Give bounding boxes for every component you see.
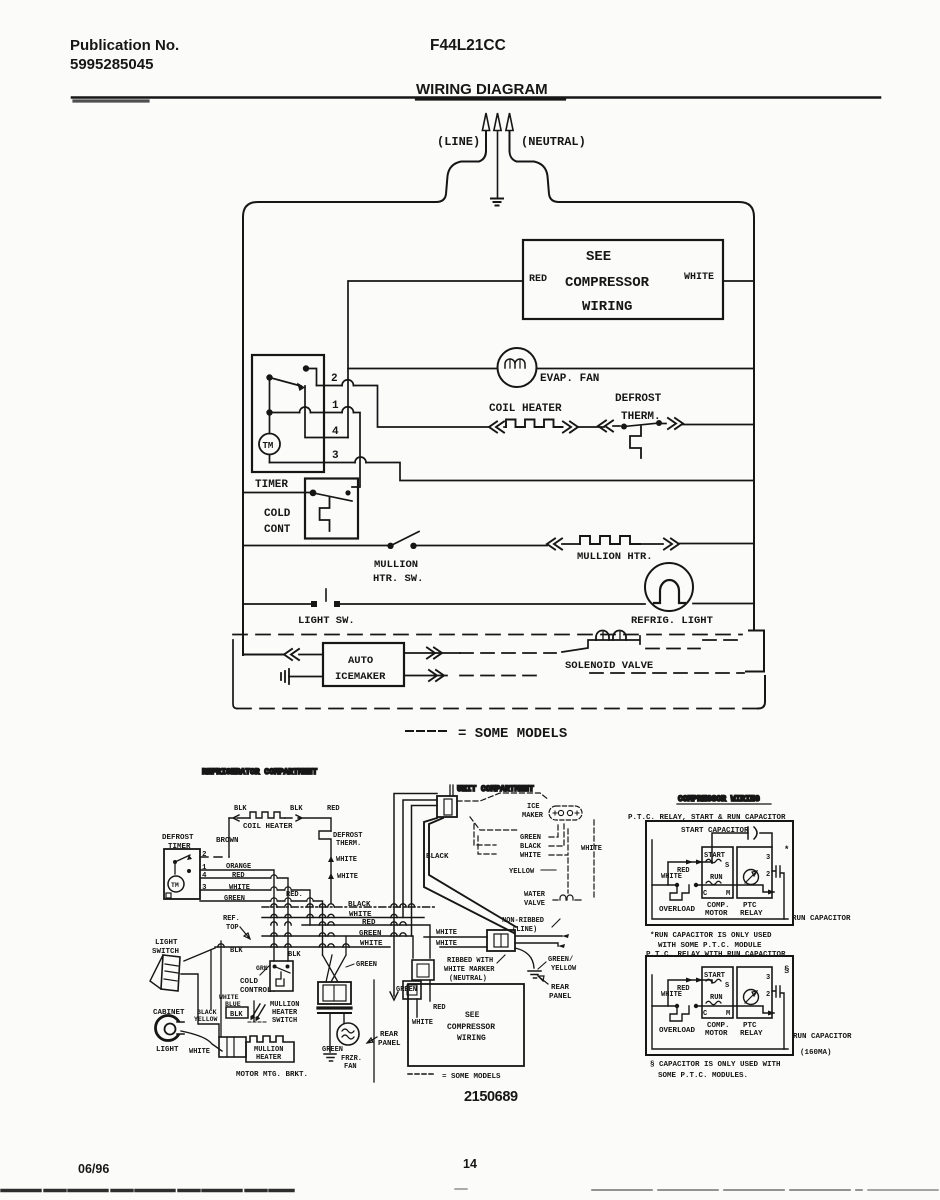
svg-text:COMPRESSOR: COMPRESSOR: [447, 1023, 495, 1032]
svg-text:PTC: PTC: [743, 1022, 757, 1030]
svg-text:LIGHT: LIGHT: [156, 1046, 179, 1054]
svg-text:AUTO: AUTO: [348, 655, 373, 667]
wire white feed to bus: [403, 800, 437, 918]
defrost thermostat S7 (lower): [319, 831, 331, 903]
run capacitor element: [772, 866, 784, 919]
svg-text:*RUN CAPACITOR IS ONLY USED: *RUN CAPACITOR IS ONLY USED: [650, 932, 772, 940]
node NEUTRAL terminal arrow: [506, 113, 513, 151]
label DEFROST THERM (lower): [333, 832, 362, 848]
svg-text:MOTOR MTG. BRKT.: MOTOR MTG. BRKT.: [236, 1071, 308, 1079]
cold control contacts: [310, 490, 352, 532]
label REAR PANEL (service): [549, 984, 572, 1001]
wire: evap fan line to right rail: [348, 368, 754, 370]
svg-text:THERM.: THERM.: [336, 840, 361, 848]
svg-text:BLACK: BLACK: [520, 843, 542, 851]
svg-text:WHITE: WHITE: [229, 884, 250, 892]
svg-text:14: 14: [463, 1157, 477, 1171]
light switch S2: [243, 589, 645, 607]
wires into SEE box: [417, 980, 430, 1017]
hop: line2 over red rail: [342, 380, 354, 386]
svg-text:FRZR.: FRZR.: [341, 1055, 362, 1063]
label PTC RELAY: [740, 1022, 763, 1038]
wire red feed to bus: [412, 806, 438, 937]
svg-text:COIL HEATER: COIL HEATER: [489, 403, 562, 415]
svg-text:S: S: [725, 982, 729, 990]
wire terminal2 brown riser: [200, 856, 229, 858]
svg-text:REAR: REAR: [551, 984, 570, 992]
bottom border left: [2, 1189, 293, 1192]
svg-text:RUN: RUN: [710, 874, 723, 882]
svg-text:BLK: BLK: [290, 805, 303, 813]
unit compartment connector J1: [437, 785, 457, 817]
label WHITE / BLUE: [219, 994, 241, 1008]
svg-text:PANEL: PANEL: [549, 993, 572, 1001]
svg-text:ICEMAKER: ICEMAKER: [335, 671, 386, 683]
legend dashes = SOME MODELS: [406, 730, 449, 732]
wire cabinet light leads: [181, 1031, 222, 1051]
svg-text:06/96: 06/96: [78, 1162, 109, 1176]
label COLD CONT: [264, 508, 291, 536]
svg-text:BLK: BLK: [288, 951, 301, 959]
svg-text:SWITCH: SWITCH: [272, 1017, 297, 1025]
svg-text:C: C: [703, 1010, 707, 1018]
solenoid valve L1: [562, 631, 640, 653]
svg-text:DEFROST: DEFROST: [162, 834, 194, 842]
timer contact node 1: [266, 409, 272, 415]
svg-text:COMP.: COMP.: [707, 902, 730, 910]
connector arrow >> (icemaker out line): [427, 648, 442, 659]
timer motor TM: [259, 434, 280, 455]
svg-text:EVAP. FAN: EVAP. FAN: [540, 373, 599, 385]
svg-text:(160MA): (160MA): [800, 1049, 832, 1057]
svg-text:REFRIGERATOR COMPARTMENT: REFRIGERATOR COMPARTMENT: [202, 768, 317, 777]
wire white arrows on defrost drop: [328, 856, 334, 879]
svg-text:BROWN: BROWN: [216, 837, 239, 845]
svg-text:WHITE: WHITE: [336, 856, 357, 864]
bus RED: [302, 925, 430, 958]
node ground-neutral terminal arrow: [494, 113, 501, 197]
svg-text:MULLION: MULLION: [270, 1001, 299, 1009]
svg-text:WHITE: WHITE: [684, 272, 714, 283]
svg-text:THERM.: THERM.: [621, 411, 661, 423]
wire dashed: solenoid to right bracket: [646, 640, 745, 649]
icemaker (lower) symbol: [549, 806, 582, 820]
coil heater R1: [489, 420, 604, 433]
red lead: [668, 862, 698, 885]
svg-text:= SOME MODELS: = SOME MODELS: [442, 1073, 501, 1081]
svg-text:HEATER: HEATER: [272, 1009, 298, 1017]
some-models enclosure right corner brackets: [746, 631, 765, 709]
freezer fan connector block: [318, 982, 351, 1004]
connector BLK block: [226, 1007, 248, 1018]
svg-text:(NEUTRAL): (NEUTRAL): [521, 135, 586, 149]
some-models dashed enclosure: [233, 635, 760, 709]
note capacitor only used: [650, 1061, 781, 1080]
wire: terminal 2 line to coil heater: [317, 386, 491, 428]
ground symbol (freezer fan): [324, 1054, 336, 1061]
svg-text:GREEN: GREEN: [520, 834, 541, 842]
freezer fan connector X-wires: [323, 936, 347, 982]
svg-text:RED: RED: [433, 1004, 446, 1012]
connector arrow << (coil heater in): [489, 422, 504, 433]
hop: line1 over wiper wire: [300, 407, 311, 413]
cold control S5 (lower) box: [270, 961, 293, 991]
svg-text:3: 3: [766, 854, 770, 862]
timer contact node 2: [303, 365, 309, 371]
svg-text:GREEN/: GREEN/: [548, 956, 573, 964]
wire green from timer: [200, 901, 323, 955]
white lead with overload: [652, 1005, 677, 1007]
start capacitor loop: [712, 833, 772, 863]
wire terminal1 orange: [200, 870, 274, 961]
svg-text:Publication No.: Publication No.: [70, 37, 179, 54]
label ICE MAKER: [522, 803, 544, 820]
svg-text:REAR: REAR: [380, 1031, 399, 1039]
label FRZR. FAN: [341, 1055, 362, 1071]
svg-text:LIGHT SW.: LIGHT SW.: [298, 615, 355, 627]
svg-text:(NEUTRAL): (NEUTRAL): [449, 975, 487, 983]
svg-text:RUN CAPACITOR: RUN CAPACITOR: [792, 915, 851, 923]
evap fan motor B1: [498, 348, 537, 387]
label MULLION HEATER SWITCH: [270, 1001, 299, 1025]
svg-text:YELLOW: YELLOW: [194, 1016, 218, 1023]
node LINE terminal arrow: [482, 113, 489, 151]
timer motor TM2: [168, 876, 184, 892]
note run capacitor: [646, 932, 786, 959]
svg-text:BLACK: BLACK: [197, 1009, 217, 1016]
svg-text:S: S: [725, 862, 729, 870]
connector arrow >> (coil heater out): [563, 422, 578, 433]
wire risers to mullion connector: [211, 941, 254, 1036]
svg-text:TOP: TOP: [226, 924, 239, 932]
svg-text:2: 2: [331, 373, 338, 385]
header rule: [72, 96, 880, 99]
label REF. TOP with arrow: [223, 915, 240, 932]
svg-text:4: 4: [202, 872, 207, 880]
svg-text:*: *: [784, 845, 789, 855]
compressor feed connectors: [403, 960, 434, 999]
timer wiper arm: [266, 374, 305, 391]
label COMP. MOTOR: [705, 1022, 730, 1038]
wire: white from compressor box to right rail: [723, 280, 754, 282]
svg-text:C: C: [703, 890, 707, 898]
bus WHITE lower: [215, 946, 390, 948]
bus BLACK: [262, 906, 437, 908]
svg-text:§: §: [784, 965, 789, 975]
svg-text:1: 1: [202, 864, 207, 872]
wire terminal4 red: [200, 878, 288, 961]
red lead: [668, 980, 698, 1006]
svg-text:WHITE: WHITE: [581, 845, 602, 853]
legend some models (lower): [408, 1073, 436, 1075]
svg-text:YELLOW: YELLOW: [551, 965, 577, 973]
PTC relay box: [737, 967, 772, 1018]
svg-text:4: 4: [332, 426, 339, 438]
mullion heater connector: [219, 1037, 246, 1057]
bottom border right: [592, 1189, 862, 1191]
svg-text:WHITE: WHITE: [520, 852, 541, 860]
svg-text:F44L21CC: F44L21CC: [430, 37, 506, 54]
timer terminal labels 2 1 4 3: [202, 851, 207, 892]
svg-text:CONTROL.: CONTROL.: [240, 987, 276, 995]
dashed leads to icemaker: [457, 793, 594, 897]
svg-text:5995285045: 5995285045: [70, 56, 153, 73]
svg-text:3: 3: [332, 450, 339, 462]
svg-text:COLD: COLD: [264, 508, 291, 520]
ground symbol (service cord): [528, 971, 541, 978]
svg-text:BLACK: BLACK: [426, 853, 449, 861]
wire: terminal 1 line to cold control: [270, 413, 361, 488]
wire: main loop top edge with service entrance bumps: [243, 151, 486, 655]
lower coil heater R4 line: [229, 812, 331, 831]
svg-text:MULLION: MULLION: [254, 1046, 283, 1054]
compressor box U1: SEE COMPRESSOR WIRING: [523, 240, 723, 319]
icemaker ground plug symbol: [281, 669, 323, 684]
service cord connector J2: [487, 930, 515, 951]
comp motor M box: [702, 847, 733, 898]
svg-text:RED: RED: [327, 805, 340, 813]
svg-text:= SOME MODELS: = SOME MODELS: [458, 726, 567, 742]
wires white into J2: [424, 937, 487, 947]
wire black bundle: [424, 818, 516, 933]
svg-text:RED: RED: [529, 274, 547, 285]
service cord exit wires with arrows: [515, 936, 562, 946]
svg-text:ORANGE: ORANGE: [226, 863, 251, 871]
compressor circuit box: [646, 821, 793, 925]
svg-text:WHITE: WHITE: [412, 1019, 433, 1027]
svg-text:SOME P.T.C. MODULES.: SOME P.T.C. MODULES.: [658, 1072, 748, 1080]
svg-text:RIBBED WITH: RIBBED WITH: [447, 957, 493, 965]
hop: line1 over red rail: [342, 407, 354, 413]
wire: node2 stub to terminal 2 lead: [306, 369, 317, 386]
svg-text:NON-RIBBED: NON-RIBBED: [502, 917, 544, 925]
svg-text:WHITE MARKER: WHITE MARKER: [444, 966, 495, 974]
svg-text:BLK: BLK: [230, 1011, 243, 1019]
svg-text:HTR. SW.: HTR. SW.: [373, 573, 423, 585]
wire dashed: icemaker to solenoid valve: [460, 652, 556, 654]
svg-text:2: 2: [766, 991, 770, 999]
svg-text:HEATER: HEATER: [256, 1054, 282, 1062]
svg-text:3: 3: [766, 974, 770, 982]
svg-text:START CAPACITOR: START CAPACITOR: [681, 827, 749, 835]
SEE COMPRESSOR WIRING box (lower): [408, 984, 524, 1066]
mullion heater switch S8 slashes: [248, 1004, 266, 1022]
ground wire from J2: [515, 948, 534, 968]
svg-text:WHITE: WHITE: [349, 911, 372, 919]
svg-text:COMP.: COMP.: [707, 1022, 730, 1030]
svg-text:RELAY: RELAY: [740, 910, 763, 918]
svg-text:CONT: CONT: [264, 524, 291, 536]
svg-text:TM: TM: [263, 441, 274, 451]
svg-text:2150689: 2150689: [464, 1089, 518, 1105]
svg-text:REFRIG. LIGHT: REFRIG. LIGHT: [631, 615, 713, 627]
svg-text:RUN: RUN: [710, 994, 723, 1002]
wire: wiper to terminal 4 rail: [305, 386, 348, 438]
svg-text:OVERLOAD: OVERLOAD: [659, 906, 696, 914]
bus WHITE upper: [262, 917, 424, 919]
cold control thermostat S1 box: [305, 479, 358, 539]
cabinet light DS2: [156, 1016, 181, 1041]
svg-text:WIRING: WIRING: [457, 1034, 486, 1043]
wires connector to fan: [330, 1014, 344, 1052]
wire green feed to rear panel ground: [394, 794, 437, 997]
svg-text:WIRING DIAGRAM: WIRING DIAGRAM: [416, 81, 548, 98]
svg-text:SOLENOID VALVE: SOLENOID VALVE: [565, 660, 653, 672]
svg-text:WHITE: WHITE: [189, 1048, 210, 1056]
svg-text:COLD: COLD: [240, 978, 259, 986]
svg-text:START: START: [704, 852, 725, 860]
defrost thermostat S3: [598, 418, 754, 458]
svg-text:3: 3: [202, 884, 207, 892]
svg-text:MAKER: MAKER: [522, 812, 544, 820]
svg-text:TIMER: TIMER: [255, 479, 288, 491]
wire: TM motor to contact 1: [269, 380, 271, 463]
svg-text:COMPRESSOR WIRING: COMPRESSOR WIRING: [678, 795, 760, 804]
svg-text:WHITE: WHITE: [360, 940, 383, 948]
wire: icemaker neutral output: [404, 675, 447, 677]
svg-text:TM: TM: [171, 882, 179, 889]
svg-text:GREEN: GREEN: [359, 930, 382, 938]
svg-text:BLK: BLK: [234, 805, 247, 813]
svg-text:WHITE: WHITE: [661, 873, 682, 881]
header: publication number: [70, 37, 548, 98]
defrost timer T2 box: [164, 849, 200, 899]
svg-text:MULLION HTR.: MULLION HTR.: [577, 551, 653, 563]
svg-text:WIRING: WIRING: [582, 299, 632, 315]
label COLD CONTROL: [240, 978, 276, 995]
svg-text:ICE: ICE: [527, 803, 540, 811]
fold line: [373, 980, 375, 1082]
connector arrow << (icemaker feed): [284, 649, 299, 660]
svg-text:RED: RED: [362, 919, 376, 927]
label GREEN/YELLOW: [548, 956, 577, 973]
connector arrow >> (icemaker out neutral): [429, 670, 444, 681]
label PTC RELAY: [740, 902, 763, 918]
label NON-RIBBED (LINE): [502, 917, 544, 934]
svg-text:DEFROST: DEFROST: [333, 832, 362, 840]
svg-text:RED: RED: [232, 872, 245, 880]
svg-text:WHITE: WHITE: [436, 940, 457, 948]
icemaker A1 box: [323, 643, 404, 686]
svg-text:2: 2: [766, 871, 770, 879]
svg-text:WHITE: WHITE: [661, 991, 682, 999]
svg-text:LIGHT: LIGHT: [155, 939, 178, 947]
resistor element coil heater: [506, 420, 563, 428]
ground symbol at service cord: [491, 199, 503, 206]
terminal labels 3 2: [766, 974, 770, 999]
water valve solenoid (dashed): [553, 895, 581, 900]
label MULLION HTR. SW.: [373, 559, 423, 585]
wire: left rail to cold control: [243, 492, 312, 494]
label COMP. MOTOR: [705, 902, 730, 918]
svg-text:VALVE: VALVE: [524, 900, 545, 908]
svg-text:(LINE): (LINE): [437, 135, 480, 149]
overload protector: [670, 1006, 689, 1021]
svg-text:2: 2: [202, 851, 207, 859]
svg-text:SEE: SEE: [586, 249, 611, 265]
bus GREEN: [262, 936, 413, 958]
svg-text:FAN: FAN: [344, 1063, 357, 1071]
svg-text:RELAY: RELAY: [740, 1030, 763, 1038]
svg-text:BLK: BLK: [230, 947, 243, 955]
hop: line3 over cold-control drop: [355, 457, 366, 463]
svg-text:M: M: [726, 890, 730, 898]
comp motor M box: [702, 967, 733, 1018]
PTC relay box: [737, 847, 772, 898]
header rule smudge: [74, 99, 148, 102]
defrost timer T2 labels: [162, 834, 194, 851]
label BLACK / YELLOW: [194, 1009, 218, 1023]
svg-text:GREEN: GREEN: [224, 895, 245, 903]
label RIBBED WITH WHITE MARKER (NEUTRAL): [444, 957, 495, 983]
svg-text:PTC: PTC: [743, 902, 757, 910]
svg-text:WHITE: WHITE: [337, 873, 358, 881]
svg-text:OVERLOAD: OVERLOAD: [659, 1027, 696, 1035]
label REAR PANEL (freezer): [378, 1031, 401, 1048]
svg-text:REF.: REF.: [223, 915, 240, 923]
svg-text:§ CAPACITOR IS ONLY USED WITH: § CAPACITOR IS ONLY USED WITH: [650, 1061, 781, 1069]
wire dashed: icemaker neutral to rail: [460, 673, 744, 676]
compressor circuit box: [646, 956, 793, 1055]
svg-text:START: START: [704, 972, 725, 980]
svg-text:MOTOR: MOTOR: [705, 1030, 728, 1038]
terminal labels 3 2: [766, 854, 770, 879]
svg-text:COIL HEATER: COIL HEATER: [243, 823, 293, 831]
wire light switch to bus: [184, 948, 215, 961]
label GREEN BLACK WHITE (icemaker leads): [520, 834, 602, 860]
label WATER VALVE: [524, 891, 546, 908]
svg-text:BLACK: BLACK: [348, 901, 371, 909]
svg-text:DEFROST: DEFROST: [615, 393, 662, 405]
svg-text:WATER: WATER: [524, 891, 546, 899]
wire: left rail drop to icemaker: [243, 604, 284, 655]
svg-text:WITH SOME P.T.C. MODULE: WITH SOME P.T.C. MODULE: [658, 942, 762, 950]
mullion heater switch S4: [243, 532, 547, 550]
svg-text:SEE: SEE: [465, 1011, 480, 1020]
freezer fan motor B2: [337, 1023, 359, 1045]
svg-text:WHITE: WHITE: [436, 929, 457, 937]
svg-text:MULLION: MULLION: [374, 559, 418, 571]
wire terminal3 white: [200, 890, 310, 925]
svg-text:GREEN: GREEN: [356, 961, 377, 969]
wire: terminal 3 line from TM: [270, 463, 755, 481]
timer T2 contacts: [166, 855, 192, 898]
wire: icemaker output line: [404, 652, 460, 654]
some-models enclosure left edge: [233, 640, 237, 709]
mullion heater R2: [547, 536, 754, 550]
light switch S6 (lower): [152, 939, 179, 956]
svg-text:PANEL: PANEL: [378, 1040, 401, 1048]
refrigerator light DS1: [645, 563, 754, 611]
mullion heater R3 box: [246, 1036, 294, 1062]
svg-text:M: M: [726, 1010, 730, 1018]
svg-text:WHITE: WHITE: [219, 994, 239, 1001]
wire: red feed from timer to compressor box: [348, 281, 523, 438]
svg-text:MOTOR: MOTOR: [705, 910, 728, 918]
svg-text:1: 1: [332, 400, 339, 412]
svg-text:RUN CAPACITOR: RUN CAPACITOR: [793, 1033, 852, 1041]
defrost timer T1 box: [252, 355, 324, 472]
white lead with overload: [652, 884, 677, 886]
svg-text:COMPRESSOR: COMPRESSOR: [565, 275, 650, 291]
run capacitor element: [772, 986, 784, 1049]
svg-text:GREEN: GREEN: [322, 1046, 343, 1054]
overload protector: [670, 885, 689, 900]
svg-text:YELLOW: YELLOW: [509, 868, 535, 876]
